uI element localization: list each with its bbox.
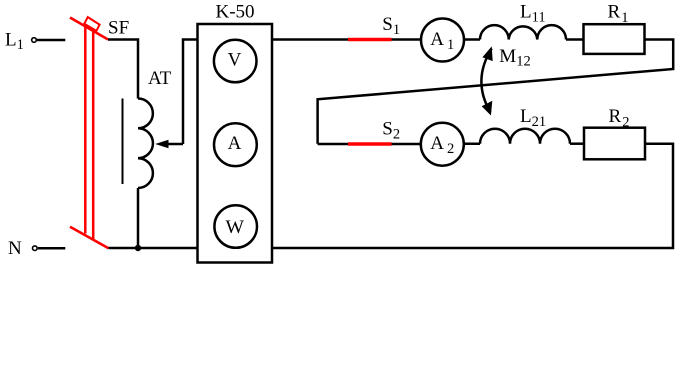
voltmeter V bbox=[214, 40, 257, 83]
ammeter A bbox=[214, 123, 257, 166]
instrument block K-50 bbox=[198, 24, 273, 263]
wire switch to K-50 bottom bbox=[109, 247, 198, 250]
wire L11 to R1 bbox=[566, 38, 584, 41]
wire N to switch bbox=[38, 247, 66, 250]
shunt S2 bbox=[348, 142, 392, 145]
wiper arrow of AT bbox=[160, 143, 183, 146]
wattmeter W bbox=[214, 205, 257, 248]
wire L21 to R2 bbox=[570, 142, 584, 145]
wire R2 to K-50 bottom (right side and bottom run) bbox=[272, 144, 673, 248]
switch SF bbox=[70, 17, 109, 248]
wire L1 to switch bbox=[37, 39, 65, 42]
autotransformer AT bbox=[122, 99, 124, 185]
svg-text:AT: AT bbox=[148, 68, 172, 89]
wire A2 to L21 bbox=[464, 142, 480, 145]
svg-text:W: W bbox=[226, 217, 245, 238]
inductor L21 bbox=[480, 129, 570, 144]
terminal L1 bbox=[32, 38, 37, 43]
svg-text:A: A bbox=[228, 133, 242, 154]
ammeter A1 bbox=[421, 19, 464, 62]
resistor R2 bbox=[584, 128, 645, 160]
wire R1 to branch 2 (right side and diagonal) bbox=[318, 40, 674, 144]
terminal N bbox=[33, 246, 38, 251]
junction node bbox=[135, 245, 141, 251]
ammeter A2 bbox=[421, 123, 464, 166]
wire A1 to L11 bbox=[464, 38, 480, 41]
wire S2 to A2 bbox=[392, 143, 422, 146]
wire AT bottom to junction bbox=[137, 188, 140, 248]
svg-text:V: V bbox=[228, 50, 242, 71]
svg-text:SF: SF bbox=[108, 18, 129, 39]
wire switch to AT top bbox=[108, 40, 138, 99]
svg-text:N: N bbox=[8, 238, 22, 259]
inductor L11 bbox=[480, 25, 566, 39]
wire K-50 to S1 bbox=[272, 38, 349, 41]
svg-text:K-50: K-50 bbox=[216, 2, 255, 23]
wire S1 to A1 bbox=[392, 38, 422, 41]
resistor R1 bbox=[584, 24, 645, 54]
wire branch2 corner to S2 bbox=[318, 143, 349, 146]
mutual inductance M12 arrow bbox=[481, 49, 491, 113]
shunt S1 bbox=[348, 38, 392, 41]
